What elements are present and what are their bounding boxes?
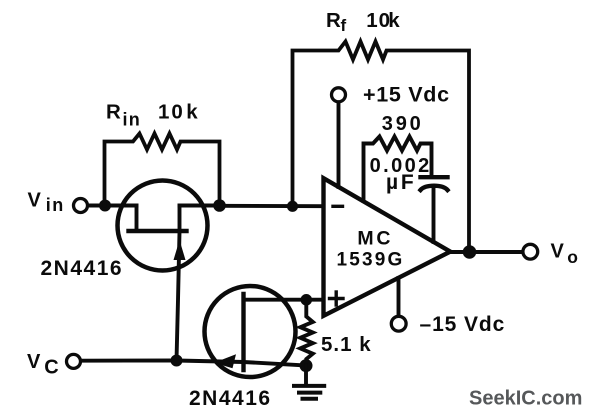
transistor Q1 2N4416 circle bbox=[118, 181, 208, 271]
svg-text:k: k bbox=[388, 9, 400, 32]
node dot Q1 drain junction bbox=[213, 199, 226, 212]
terminal -15 Vdc bbox=[391, 316, 406, 331]
svg-text:MC: MC bbox=[357, 228, 393, 250]
op-amp plus input symbol bbox=[330, 297, 344, 300]
node dot Vc junction bbox=[171, 355, 183, 367]
node dot Rin left junction bbox=[99, 200, 111, 212]
svg-text:V: V bbox=[28, 190, 42, 212]
svg-text:390: 390 bbox=[382, 113, 424, 135]
node dot feedback junction bbox=[287, 201, 298, 212]
+15 Vdc pin stem bbox=[337, 103, 341, 187]
transistor Q1 gate line bbox=[177, 232, 180, 361]
resistor 5.1k bbox=[300, 304, 313, 366]
resistor Rf 10k feedback loop bbox=[293, 42, 470, 253]
wire Q1 drain to inverting node bbox=[180, 204, 220, 208]
terminal Vin bbox=[74, 199, 88, 213]
svg-text:f: f bbox=[341, 16, 347, 35]
transistor Q2 2N4416 circle bbox=[205, 286, 296, 377]
wire inverting input bbox=[220, 204, 324, 208]
svg-text:SeekIC.com: SeekIC.com bbox=[469, 388, 582, 410]
resistor Rin 10k loop bbox=[105, 134, 220, 206]
svg-text:1539G: 1539G bbox=[336, 250, 404, 271]
resistor 390 loop bbox=[364, 137, 432, 202]
svg-text:2N4416: 2N4416 bbox=[189, 387, 272, 410]
svg-text:5.1 k: 5.1 k bbox=[321, 333, 372, 356]
capacitor C1 bottom lead bbox=[432, 188, 436, 242]
transistor Q1 drain lead bbox=[178, 206, 182, 232]
svg-text:in: in bbox=[46, 195, 65, 215]
transistor Q2 drain lead to + node bbox=[244, 298, 324, 302]
svg-text:µF: µF bbox=[386, 171, 417, 194]
transistor Q1 source lead bbox=[135, 206, 139, 232]
terminal +15 Vdc bbox=[332, 88, 346, 102]
svg-text:R: R bbox=[326, 9, 341, 32]
svg-text:10: 10 bbox=[158, 101, 185, 124]
ground symbol bbox=[304, 366, 308, 385]
svg-text:R: R bbox=[106, 101, 121, 124]
-15 Vdc pin stem bbox=[397, 278, 401, 315]
capacitor C1 top plate bbox=[421, 175, 448, 179]
transistor Q2 gate arrow bbox=[214, 354, 236, 368]
capacitor C1 bottom curved plate bbox=[421, 186, 448, 190]
op-amp U1 MC1539G triangle bbox=[324, 178, 451, 316]
terminal Vo bbox=[523, 244, 538, 259]
svg-text:C: C bbox=[44, 357, 58, 379]
wire output bbox=[450, 250, 522, 254]
transistor Q1 channel bar bbox=[129, 229, 187, 233]
svg-text:–15 Vdc: –15 Vdc bbox=[420, 313, 506, 336]
svg-text:2N4416: 2N4416 bbox=[41, 257, 124, 280]
svg-text:k: k bbox=[186, 101, 198, 124]
transistor Q1 gate arrow bbox=[174, 240, 186, 260]
svg-text:V: V bbox=[27, 351, 41, 373]
wire Vin to Q1 source bbox=[88, 204, 137, 208]
svg-text:in: in bbox=[123, 110, 141, 130]
svg-text:o: o bbox=[567, 247, 578, 267]
svg-text:V: V bbox=[551, 241, 565, 263]
node dot ground junction bbox=[300, 359, 313, 372]
terminal Vc bbox=[67, 354, 81, 368]
svg-text:+15 Vdc: +15 Vdc bbox=[363, 82, 450, 106]
op-amp minus input symbol bbox=[333, 205, 343, 208]
node dot output junction bbox=[463, 245, 477, 259]
wire Vc to Q2 gate and source bbox=[82, 361, 304, 366]
transistor Q2 channel bar bbox=[241, 294, 245, 370]
node dot + input junction bbox=[301, 294, 313, 306]
